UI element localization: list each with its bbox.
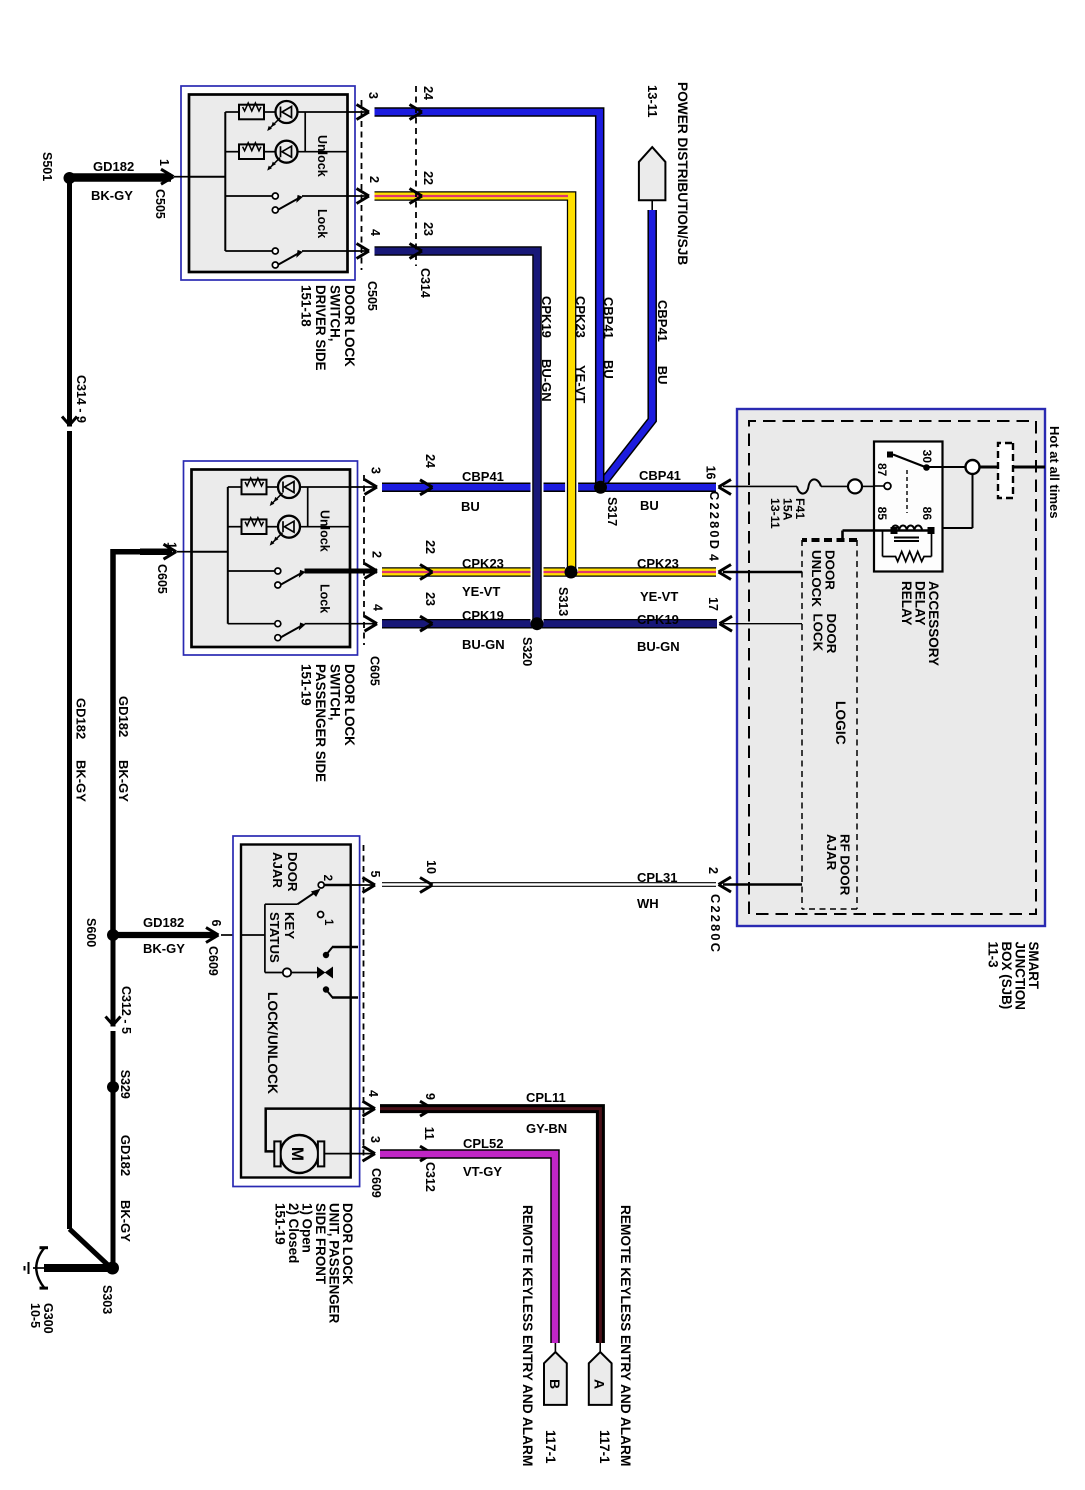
svg-text:BK-GY: BK-GY (91, 188, 133, 203)
svg-text:151-18: 151-18 (299, 285, 314, 327)
svg-text:BK-GY: BK-GY (118, 1200, 133, 1242)
svg-text:S303: S303 (100, 1285, 114, 1314)
svg-text:SWITCH,: SWITCH, (328, 664, 343, 721)
svg-text:CPL31: CPL31 (637, 870, 677, 885)
svg-text:DOOR LOCK: DOOR LOCK (342, 664, 357, 746)
svg-text:C312: C312 (423, 1162, 437, 1192)
svg-text:GD182: GD182 (118, 1135, 133, 1176)
svg-text:YE-VT: YE-VT (462, 584, 500, 599)
svg-text:4: 4 (371, 604, 385, 611)
svg-text:RELAY: RELAY (899, 581, 914, 626)
svg-text:C609: C609 (206, 946, 220, 976)
svg-text:C505: C505 (365, 281, 379, 311)
svg-text:REMOTE KEYLESS ENTRY AND ALARM: REMOTE KEYLESS ENTRY AND ALARM (618, 1205, 633, 1466)
svg-text:CBP41: CBP41 (601, 297, 616, 339)
svg-text:Lock: Lock (318, 584, 332, 613)
svg-text:GD182: GD182 (93, 159, 134, 174)
svg-text:11-3: 11-3 (986, 942, 1001, 968)
svg-text:CPK23: CPK23 (573, 296, 588, 338)
svg-text:4: 4 (366, 1090, 380, 1097)
svg-text:KEY: KEY (282, 912, 297, 939)
svg-text:24: 24 (423, 454, 437, 468)
svg-text:2: 2 (367, 176, 381, 183)
svg-text:22: 22 (423, 540, 437, 554)
svg-text:BU: BU (655, 366, 670, 385)
svg-text:1: 1 (157, 159, 171, 166)
svg-text:POWER DISTRIBUTION/SJB: POWER DISTRIBUTION/SJB (675, 82, 690, 265)
svg-text:Hot at all times: Hot at all times (1047, 426, 1062, 518)
svg-text:C609: C609 (369, 1168, 383, 1198)
svg-text:C605: C605 (368, 656, 382, 686)
svg-text:B: B (547, 1379, 563, 1389)
svg-text:2: 2 (370, 551, 384, 558)
svg-text:CPK19: CPK19 (539, 296, 554, 338)
svg-text:24: 24 (421, 86, 435, 100)
svg-text:CPK19: CPK19 (637, 612, 679, 627)
svg-text:S600: S600 (84, 918, 98, 947)
svg-text:1: 1 (322, 919, 334, 926)
svg-text:3: 3 (369, 467, 383, 474)
svg-text:10-5: 10-5 (28, 1303, 42, 1328)
svg-text:13-11: 13-11 (768, 498, 782, 529)
svg-text:S501: S501 (40, 152, 54, 181)
svg-text:DOOR LOCK: DOOR LOCK (342, 285, 357, 367)
svg-text:AJAR: AJAR (824, 834, 839, 871)
svg-text:CPK23: CPK23 (462, 556, 504, 571)
svg-text:5: 5 (368, 871, 382, 878)
svg-text:YE-VT: YE-VT (573, 365, 588, 403)
svg-text:YE-VT: YE-VT (640, 589, 678, 604)
svg-text:117-1: 117-1 (543, 1430, 558, 1464)
svg-text:CPK23: CPK23 (637, 556, 679, 571)
svg-text:10: 10 (424, 860, 438, 874)
svg-text:13-11: 13-11 (645, 85, 660, 118)
svg-text:9: 9 (423, 1093, 437, 1100)
svg-text:BU: BU (640, 498, 659, 513)
svg-text:PASSENGER SIDE: PASSENGER SIDE (313, 664, 328, 782)
svg-text:VT-GY: VT-GY (463, 1164, 502, 1179)
svg-text:Unlock: Unlock (318, 510, 332, 552)
svg-text:151-19: 151-19 (299, 664, 314, 706)
svg-text:DRIVER SIDE: DRIVER SIDE (313, 285, 328, 371)
svg-text:30: 30 (920, 450, 934, 464)
svg-text:CPL52: CPL52 (463, 1136, 503, 1151)
svg-text:REMOTE KEYLESS ENTRY AND ALARM: REMOTE KEYLESS ENTRY AND ALARM (520, 1205, 535, 1466)
svg-text:87: 87 (875, 463, 889, 477)
svg-text:BU-GN: BU-GN (539, 359, 554, 402)
svg-text:CPK19: CPK19 (462, 608, 504, 623)
svg-text:23: 23 (423, 592, 437, 606)
svg-text:LOGIC: LOGIC (833, 701, 848, 745)
svg-text:85: 85 (875, 507, 889, 521)
svg-text:UNLOCK: UNLOCK (809, 550, 824, 607)
svg-text:BU: BU (461, 499, 480, 514)
svg-text:3: 3 (366, 92, 380, 99)
svg-text:C312 - 5: C312 - 5 (119, 986, 133, 1034)
svg-text:WH: WH (637, 896, 659, 911)
svg-text:2: 2 (706, 867, 720, 874)
svg-text:GY-BN: GY-BN (526, 1121, 567, 1136)
svg-text:BU-GN: BU-GN (462, 637, 505, 652)
svg-text:2: 2 (321, 875, 333, 881)
svg-text:LOCK/UNLOCK: LOCK/UNLOCK (265, 992, 280, 1094)
svg-text:C314: C314 (418, 268, 432, 298)
svg-text:11: 11 (422, 1127, 436, 1140)
svg-text:86: 86 (920, 507, 934, 521)
svg-text:SWITCH,: SWITCH, (328, 285, 343, 342)
svg-text:S317: S317 (605, 497, 619, 526)
svg-text:BU-GN: BU-GN (637, 639, 680, 654)
svg-text:BK-GY: BK-GY (143, 941, 185, 956)
svg-text:151-19: 151-19 (273, 1203, 288, 1245)
svg-text:16: 16 (704, 466, 718, 480)
svg-text:CBP41: CBP41 (639, 468, 681, 483)
svg-text:C314 - 9: C314 - 9 (74, 375, 88, 423)
svg-text:1: 1 (165, 542, 179, 549)
svg-text:C2280C: C2280C (708, 894, 723, 954)
svg-text:AJAR: AJAR (270, 852, 285, 888)
svg-text:S313: S313 (556, 587, 570, 616)
svg-text:Unlock: Unlock (315, 135, 329, 177)
svg-text:BK-GY: BK-GY (116, 760, 131, 802)
svg-text:C605: C605 (155, 564, 169, 594)
svg-text:CBP41: CBP41 (462, 469, 504, 484)
svg-text:C2280D: C2280D (707, 491, 722, 551)
svg-text:C505: C505 (153, 189, 167, 219)
svg-text:LOCK: LOCK (811, 614, 826, 652)
svg-text:GD182: GD182 (116, 696, 131, 737)
svg-text:S329: S329 (118, 1070, 132, 1099)
svg-text:S320: S320 (520, 637, 534, 666)
svg-text:4: 4 (368, 229, 382, 236)
svg-text:M: M (288, 1147, 307, 1161)
svg-text:23: 23 (421, 222, 435, 236)
svg-text:Lock: Lock (315, 209, 329, 238)
svg-text:STATUS: STATUS (267, 912, 282, 963)
svg-text:GD182: GD182 (74, 698, 89, 739)
svg-text:22: 22 (421, 171, 435, 185)
svg-text:DOOR: DOOR (285, 852, 300, 892)
svg-text:CPL11: CPL11 (526, 1090, 566, 1105)
svg-text:CBP41: CBP41 (655, 300, 670, 342)
svg-text:3: 3 (368, 1136, 382, 1143)
svg-text:17: 17 (706, 597, 720, 611)
svg-text:4: 4 (707, 554, 721, 561)
svg-text:BU: BU (601, 360, 616, 379)
svg-text:G300: G300 (41, 1303, 55, 1334)
svg-text:117-1: 117-1 (597, 1430, 612, 1464)
svg-text:A: A (592, 1379, 608, 1389)
svg-text:BK-GY: BK-GY (74, 760, 89, 802)
svg-text:GD182: GD182 (143, 915, 184, 930)
svg-text:6: 6 (209, 920, 223, 927)
